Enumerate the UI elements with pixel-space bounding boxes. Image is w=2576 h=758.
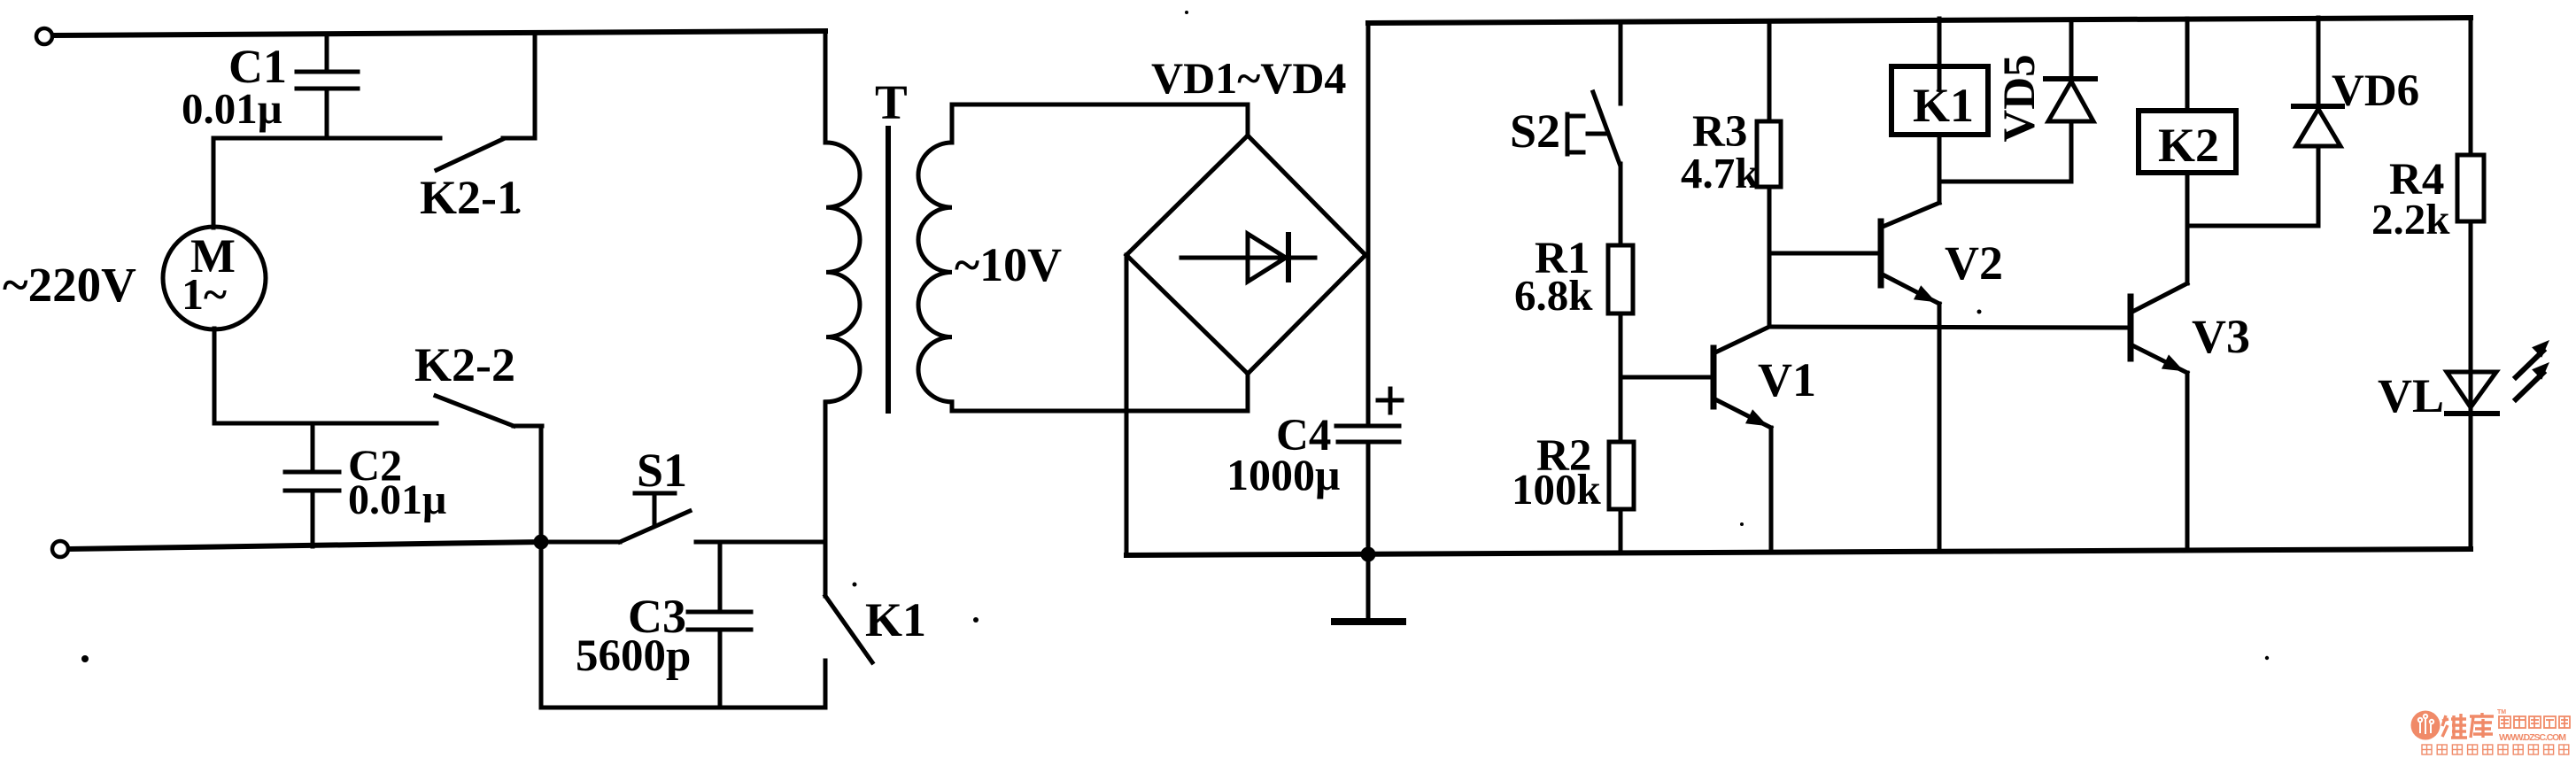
svg-text:TM: TM xyxy=(2497,709,2506,715)
svg-text:V2: V2 xyxy=(1945,236,2003,290)
svg-text:5600p: 5600p xyxy=(576,631,691,681)
svg-text:T: T xyxy=(875,75,908,129)
svg-text:~10V: ~10V xyxy=(955,238,1062,291)
svg-text:WWW.DZSC.COM: WWW.DZSC.COM xyxy=(2499,732,2566,743)
svg-text:VL: VL xyxy=(2378,369,2444,422)
svg-text:100k: 100k xyxy=(1512,465,1602,514)
svg-text:6.8k: 6.8k xyxy=(1514,271,1593,320)
svg-text:S2: S2 xyxy=(1510,104,1560,158)
svg-text:V1: V1 xyxy=(1758,353,1816,406)
svg-text:K2: K2 xyxy=(2158,119,2219,172)
svg-text:K1: K1 xyxy=(865,593,926,646)
svg-text:1000μ: 1000μ xyxy=(1226,450,1340,499)
svg-text:K1: K1 xyxy=(1913,79,1974,132)
svg-text:2.2k: 2.2k xyxy=(2371,195,2450,244)
svg-text:~220V: ~220V xyxy=(3,258,136,312)
svg-text:1~: 1~ xyxy=(182,269,227,319)
svg-text:S1: S1 xyxy=(637,444,687,497)
svg-text:K2-2: K2-2 xyxy=(414,338,515,391)
svg-text:0.01μ: 0.01μ xyxy=(182,84,282,133)
svg-text:VD1~VD4: VD1~VD4 xyxy=(1151,53,1346,103)
svg-text:0.01μ: 0.01μ xyxy=(348,476,446,523)
svg-text:K2-1: K2-1 xyxy=(420,171,521,224)
svg-text:4.7k: 4.7k xyxy=(1681,149,1760,197)
svg-text:VD6: VD6 xyxy=(2332,66,2419,116)
svg-text:VD5: VD5 xyxy=(1995,54,2045,142)
svg-text:V3: V3 xyxy=(2192,310,2250,363)
